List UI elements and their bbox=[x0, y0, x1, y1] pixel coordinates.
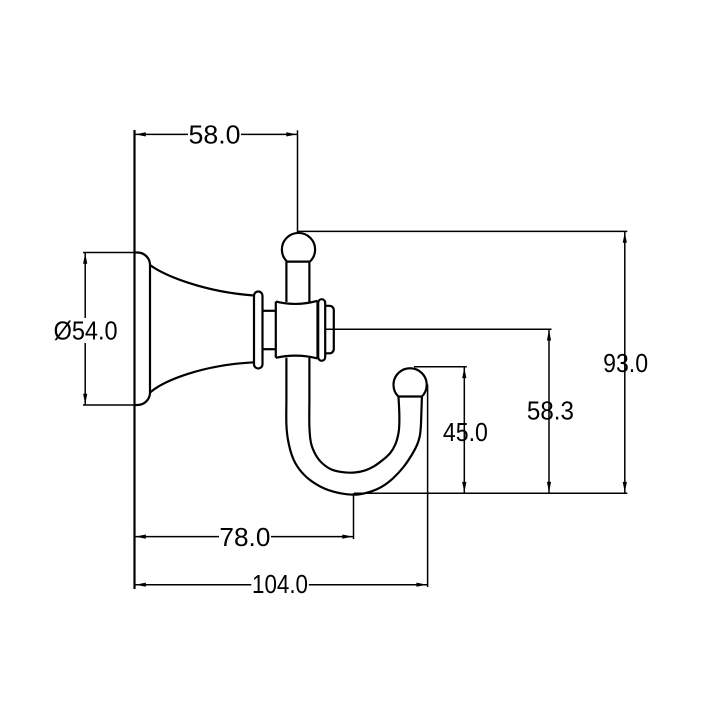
dimension 45.0 line bbox=[462, 367, 466, 493]
step cylinder top edge bbox=[263, 310, 276, 312]
hook inner curve bbox=[309, 358, 399, 473]
collar ring 1 bbox=[254, 292, 263, 369]
dimension 58.3 line bbox=[547, 329, 551, 493]
hub block bbox=[276, 301, 318, 359]
collar ring 2 bbox=[318, 299, 325, 361]
dimension 58.0 extension line right bbox=[297, 130, 299, 232]
dimension 78.0 line bbox=[135, 535, 354, 539]
dimension 104.0 extension from hook right bbox=[427, 385, 429, 588]
dimension 78.0 extension from hook bottom bbox=[353, 493, 355, 539]
svg-text:104.0: 104.0 bbox=[252, 569, 308, 599]
dimension 58.0 line bbox=[135, 132, 298, 136]
svg-text:93.0: 93.0 bbox=[603, 348, 648, 378]
dimension 104.0 line bbox=[135, 583, 428, 587]
step cylinder bottom edge bbox=[263, 348, 276, 350]
hook bottom extension line bbox=[354, 492, 627, 494]
svg-text:45.0: 45.0 bbox=[443, 417, 488, 447]
svg-text:78.0: 78.0 bbox=[219, 522, 270, 552]
flange plate bbox=[135, 253, 151, 406]
dimension D54.0 line bbox=[83, 253, 87, 406]
dimension D54.0 extension top bbox=[83, 252, 135, 254]
svg-text:Ø54.0: Ø54.0 bbox=[54, 316, 118, 346]
dimension D54.0 extension bottom bbox=[83, 404, 135, 406]
wall line bbox=[133, 130, 135, 589]
dimension 45.0 extension from hook ball top bbox=[414, 366, 467, 368]
hook ball bbox=[393, 368, 426, 396]
flange bell bottom curve bbox=[150, 362, 254, 392]
top ball bbox=[282, 233, 315, 262]
end cap bbox=[325, 306, 334, 354]
dimension 93.0 line bbox=[623, 231, 627, 493]
top ball junction line bbox=[286, 261, 309, 263]
hook left outer curve bbox=[286, 358, 422, 495]
dimension 58.3 extension from arm centerline bbox=[326, 328, 552, 330]
hook ball junction line bbox=[398, 395, 422, 397]
dimension 93.0 extension from ball top bbox=[298, 230, 628, 232]
svg-text:58.3: 58.3 bbox=[527, 395, 574, 425]
flange bell top curve bbox=[150, 265, 254, 296]
svg-text:58.0: 58.0 bbox=[189, 119, 241, 149]
post upper section bbox=[286, 262, 309, 302]
